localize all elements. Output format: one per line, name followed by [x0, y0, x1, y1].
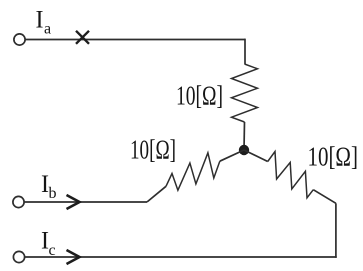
- wire right vertical: [335, 203, 337, 257]
- arrow on wire b: [67, 195, 80, 209]
- label Ia: [36, 7, 52, 38]
- open-break X on wire a: [76, 31, 89, 44]
- svg-text:I: I: [36, 7, 44, 34]
- terminal b: [13, 196, 24, 207]
- wire a horizontal: [25, 39, 245, 41]
- wire Rc lead to corner: [313, 190, 336, 204]
- wire Rb to node: [220, 150, 244, 161]
- wire b lead to resistor: [147, 186, 166, 202]
- label Ic: [41, 228, 56, 260]
- resistor Rb 10 ohm (diagonal): [166, 153, 220, 190]
- arrow on wire c: [67, 250, 80, 264]
- wire a vertical drop: [244, 39, 246, 64]
- label Ib: [41, 171, 57, 202]
- terminal c: [13, 251, 24, 262]
- resistor Rc 10 ohm (diagonal): [268, 152, 314, 198]
- wire Ra to node: [243, 122, 246, 150]
- node N (neutral junction): [239, 145, 249, 155]
- wire c horizontal: [25, 256, 337, 258]
- terminal a: [14, 34, 25, 45]
- wire node to Rc: [244, 150, 268, 162]
- svg-text:10[Ω]: 10[Ω]: [130, 134, 176, 165]
- svg-text:10[Ω]: 10[Ω]: [176, 80, 223, 111]
- resistor Ra 10 ohm (vertical): [232, 64, 258, 122]
- svg-text:10[Ω]: 10[Ω]: [308, 141, 359, 172]
- svg-text:a: a: [44, 21, 51, 38]
- svg-text:b: b: [49, 185, 57, 202]
- wire b horizontal: [24, 201, 147, 203]
